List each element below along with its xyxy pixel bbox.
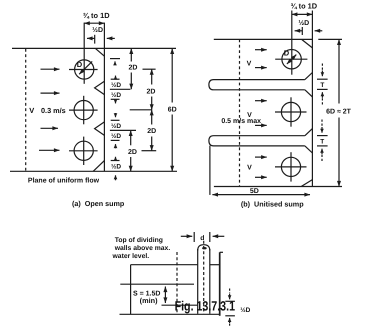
max water level left xyxy=(131,264,198,266)
svg-text:(a) Open sump: (a) Open sump xyxy=(72,199,125,208)
splitter notch 1 xyxy=(95,81,105,94)
svg-text:½D: ½D xyxy=(111,164,121,171)
dim chain 2D upper left xyxy=(130,48,132,61)
wall cap xyxy=(198,245,210,251)
svg-text:T: T xyxy=(320,82,324,89)
node right wall (a) xyxy=(103,23,105,172)
fillet top corner (b) xyxy=(302,39,313,48)
dim 3/4 to 1D arrow xyxy=(84,22,104,24)
half D group 1 xyxy=(115,76,117,79)
svg-text:½D: ½D xyxy=(111,92,121,99)
svg-text:½D: ½D xyxy=(92,27,103,34)
wire top plane line xyxy=(12,47,176,49)
svg-text:6D ≈ 2T: 6D ≈ 2T xyxy=(326,109,352,116)
heavy vertical line xyxy=(219,252,221,315)
flow arrow row 2 xyxy=(41,92,60,94)
flow arrows bay 3 xyxy=(255,156,267,158)
dividing wall bar 1 xyxy=(209,80,305,90)
svg-text:T: T xyxy=(320,138,324,145)
pump bell circle b3 xyxy=(281,157,300,176)
dim 5D xyxy=(212,194,310,196)
svg-text:Top of dividing: Top of dividing xyxy=(115,237,163,244)
svg-text:2D: 2D xyxy=(147,88,156,95)
svg-text:Plane of uniform flow: Plane of uniform flow xyxy=(28,176,100,184)
svg-text:2D: 2D xyxy=(129,65,138,72)
dim T lower xyxy=(321,120,323,127)
dim half D tick xyxy=(94,35,96,44)
diameter arrow circle b1 xyxy=(287,55,296,64)
svg-text:2D: 2D xyxy=(147,128,156,135)
svg-text:V: V xyxy=(29,106,34,115)
svg-text:0.5 m/s max: 0.5 m/s max xyxy=(221,117,261,125)
dim T upper xyxy=(321,64,323,71)
fillet bottom corner (b) xyxy=(301,180,312,187)
flow arrow row 3 xyxy=(41,127,59,129)
wire bottom line (b) xyxy=(214,186,342,188)
wire pump centreline ext xyxy=(83,23,85,84)
tick top half D xyxy=(110,58,120,60)
wire bottom plane line xyxy=(10,170,177,172)
node left wall (b) xyxy=(209,146,211,195)
flow arrow row 4 xyxy=(39,149,60,151)
fillet bottom corner (a) xyxy=(93,161,104,172)
pump bell circle b1 xyxy=(282,50,301,69)
pump bell circle b2 xyxy=(281,102,300,121)
wire dashed inflow boundary xyxy=(25,49,27,171)
svg-text:D: D xyxy=(77,60,83,69)
dim chain 6D 2T xyxy=(338,39,340,103)
svg-text:D: D xyxy=(284,48,290,57)
dim half D tick (b) xyxy=(301,27,303,35)
svg-text:V: V xyxy=(247,165,252,172)
svg-text:d: d xyxy=(200,235,204,242)
dividing wall column right face xyxy=(209,249,211,314)
splitter notch 2 xyxy=(95,122,105,135)
pump bell circle 2 xyxy=(74,101,93,120)
dim 3/4 to 1D arrow (b) xyxy=(292,13,313,15)
min water level xyxy=(120,283,194,285)
svg-text:5D: 5D xyxy=(250,188,259,195)
dim half D bell clearance xyxy=(229,289,231,294)
pump bell circle 1 xyxy=(75,60,94,79)
dim chain 2D mid lower xyxy=(151,110,153,125)
left vertical edge xyxy=(130,265,132,315)
svg-text:(b) Unitised sump: (b) Unitised sump xyxy=(241,200,304,209)
svg-text:walls above max.: walls above max. xyxy=(114,245,171,252)
wire dashed centre (b) xyxy=(239,39,241,186)
dashed line left of wall xyxy=(176,252,178,314)
dim d arrows xyxy=(181,235,192,237)
svg-text:½D: ½D xyxy=(111,133,121,140)
svg-text:6D: 6D xyxy=(168,106,177,113)
svg-text:water level.: water level. xyxy=(112,253,150,260)
dividing wall bar 2 xyxy=(209,136,305,146)
svg-text:¾ to 1D: ¾ to 1D xyxy=(290,1,317,10)
dim half D left arrow xyxy=(87,37,95,39)
node right wall (b) xyxy=(311,11,313,187)
half D group floor xyxy=(115,157,117,160)
tick circle2 centre xyxy=(130,109,152,111)
svg-text:¾ to 1D: ¾ to 1D xyxy=(83,11,110,20)
svg-text:½D: ½D xyxy=(111,123,121,130)
dim chain 6D xyxy=(171,48,173,102)
svg-text:½D: ½D xyxy=(111,82,121,89)
flow arrows bay 2 xyxy=(255,100,267,102)
flow arrow row 1 xyxy=(41,68,60,70)
dim half D right arrow xyxy=(107,37,115,39)
tick circle1 centre xyxy=(143,68,156,70)
bell mouth level xyxy=(162,304,198,306)
svg-text:½D: ½D xyxy=(240,307,250,314)
wire pump centreline ext (b) xyxy=(291,11,293,75)
svg-text:0.3 m/s: 0.3 m/s xyxy=(41,106,66,115)
tick circle3 centre xyxy=(142,150,157,152)
half D group 2 xyxy=(115,113,117,117)
dividing wall column left face xyxy=(197,249,199,314)
pump bell circle 3 xyxy=(74,141,93,160)
dim d ext bars xyxy=(193,232,195,242)
wall centreline dashed xyxy=(203,241,205,314)
svg-text:½D: ½D xyxy=(298,20,309,27)
dim half D arrows (b) xyxy=(295,30,303,32)
svg-text:V: V xyxy=(247,60,252,67)
dim S arrow xyxy=(164,287,166,304)
svg-text:(min): (min) xyxy=(140,296,158,305)
dim chain 2D mid upper xyxy=(151,69,153,84)
flow arrows bay 1 xyxy=(255,49,267,51)
svg-text:2D: 2D xyxy=(128,149,137,156)
diameter arrow circle 1 xyxy=(79,61,92,74)
max water level right xyxy=(210,264,220,266)
dim chain 2D lower left xyxy=(130,130,132,145)
wire top line (b) xyxy=(214,38,313,40)
fillet top corner (a) xyxy=(95,48,104,56)
floor line xyxy=(120,313,220,315)
svg-text:Fig. 13.7.3.1: Fig. 13.7.3.1 xyxy=(175,298,236,313)
